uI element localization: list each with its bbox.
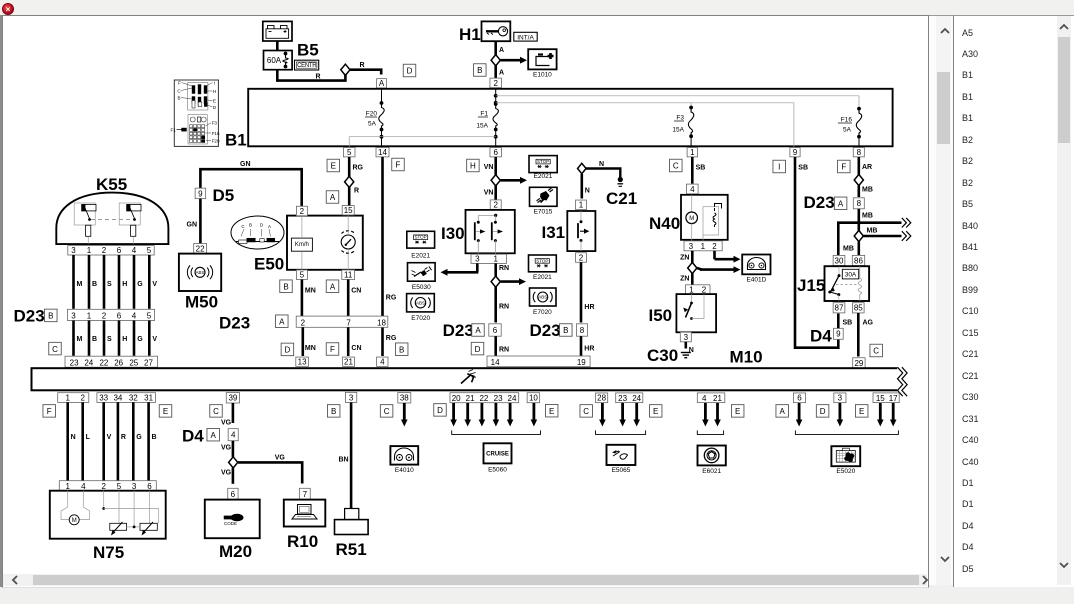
svg-text:60A: 60A — [267, 56, 282, 65]
svg-text:I31: I31 — [542, 223, 566, 242]
svg-text:E50: E50 — [254, 255, 284, 274]
svg-text:D23: D23 — [443, 321, 474, 340]
svg-text:6: 6 — [147, 482, 152, 491]
svg-text:22: 22 — [99, 358, 108, 367]
thin bus line F1 bottom to pin 5 — [349, 137, 496, 148]
instrument cluster E50 — [287, 216, 363, 270]
svg-text:E7020: E7020 — [533, 309, 552, 316]
svg-text:C: C — [673, 162, 679, 171]
svg-text:C: C — [384, 407, 390, 416]
svg-text:21: 21 — [466, 394, 475, 403]
svg-text:H: H — [122, 336, 127, 343]
svg-text:RN: RN — [499, 265, 509, 272]
label E6021 — [702, 468, 721, 475]
svg-text:C21: C21 — [606, 189, 637, 208]
label D4 (M20 column) — [182, 427, 204, 446]
svg-text:ABS: ABS — [538, 295, 547, 300]
resistor R51 — [335, 509, 369, 535]
svg-text:17: 17 — [889, 394, 898, 403]
node E (N75) — [159, 405, 172, 418]
K55 internal switch 1 — [74, 203, 96, 244]
pin 39 on M10 bottom — [226, 393, 239, 403]
svg-text:2: 2 — [579, 253, 584, 262]
pin 22 of M50 — [194, 244, 207, 254]
svg-text:Km/h: Km/h — [295, 242, 309, 248]
wire VG to M20 — [221, 468, 233, 484]
svg-text:A: A — [211, 431, 217, 440]
node D (col 3) — [816, 405, 829, 418]
svg-text:8: 8 — [580, 326, 585, 335]
svg-text:3: 3 — [132, 482, 137, 491]
label R51 — [336, 540, 367, 559]
pin 3 of I50 — [680, 332, 691, 342]
pin 9 of B1 — [790, 148, 800, 158]
svg-text:M50: M50 — [185, 293, 218, 312]
svg-text:F: F — [396, 161, 401, 170]
label I50 — [649, 306, 673, 325]
switch I30 — [466, 210, 515, 254]
svg-text:1: 1 — [87, 246, 92, 255]
svg-text:M: M — [72, 518, 77, 524]
earth point E5065 — [607, 445, 636, 465]
svg-text:86: 86 — [854, 256, 863, 265]
svg-text:V: V — [152, 281, 157, 288]
fuse F3 in B1 — [672, 106, 693, 148]
svg-text:ZN: ZN — [680, 255, 689, 262]
svg-text:E: E — [653, 407, 658, 416]
diamond junction ZN — [688, 262, 697, 273]
node E (col 5 top) — [327, 159, 340, 172]
svg-text:A: A — [330, 282, 336, 291]
label B5 — [297, 41, 319, 60]
arrow to E1010 — [501, 57, 528, 64]
node C (col 39) — [210, 405, 223, 418]
label N40 — [649, 214, 680, 233]
svg-text:ABS: ABS — [195, 270, 204, 275]
label D5 — [213, 186, 235, 205]
svg-text:E5030: E5030 — [412, 284, 431, 291]
svg-text:N: N — [585, 188, 590, 195]
pin 2 of E50 — [296, 206, 307, 216]
svg-text:2: 2 — [80, 394, 85, 403]
label M10 — [730, 348, 763, 367]
svg-text:G: G — [136, 434, 142, 441]
svg-text:D4: D4 — [182, 427, 204, 446]
label C21 — [606, 189, 637, 208]
svg-text:F3: F3 — [212, 121, 218, 126]
diagnostic socket R10 — [284, 500, 326, 527]
earth point E401D — [742, 255, 770, 275]
fuse F16 in B1 — [838, 107, 862, 148]
svg-text:F: F — [178, 81, 181, 86]
wire SB D4 to J15 pin87 — [838, 314, 852, 329]
label D23 (M50 column) — [219, 314, 250, 333]
svg-text:15: 15 — [344, 206, 353, 215]
ignition switch H1 — [482, 21, 511, 41]
h-scrollbar right arrow — [918, 573, 932, 587]
svg-text:S: S — [107, 336, 112, 343]
svg-text:7: 7 — [346, 319, 351, 328]
svg-text:F16: F16 — [212, 131, 220, 136]
switch I50 — [676, 294, 716, 332]
pin 4 of N40 — [687, 184, 699, 194]
label D23 (I30 column) — [443, 321, 474, 340]
label J15 — [797, 276, 825, 295]
continuation break (bottom) — [902, 231, 911, 241]
svg-text:9: 9 — [198, 189, 203, 198]
svg-text:G: G — [137, 336, 143, 343]
pin 11 of E50 — [342, 270, 355, 280]
label I31 — [542, 223, 566, 242]
svg-text:2: 2 — [712, 242, 717, 251]
svg-text:I: I — [778, 163, 780, 172]
wire letters M B S H G V (upper) — [77, 281, 158, 288]
pin 1 of I31 — [576, 200, 587, 210]
svg-text:CRUISE: CRUISE — [486, 452, 509, 458]
svg-text:R: R — [121, 434, 126, 441]
pin row 14 19 on M10 — [487, 356, 590, 367]
svg-text:HR: HR — [584, 304, 594, 311]
svg-text:H: H — [213, 89, 216, 94]
connector view E50 dome — [231, 216, 284, 249]
pin 86 of J15 — [852, 255, 864, 265]
pin row 1 4 2 5 3 6 (N75) — [59, 481, 156, 491]
svg-text:GN: GN — [240, 161, 251, 168]
label D4 (J15 column) — [810, 327, 832, 346]
node D (cruise) — [434, 404, 447, 417]
svg-text:D: D — [285, 346, 291, 355]
svg-text:F: F — [841, 163, 846, 172]
K55 dashed link — [91, 219, 133, 221]
bracket E6021 — [697, 430, 723, 434]
svg-text:HR: HR — [584, 346, 594, 353]
wire RG B1 pin5 to E50 pin15 — [349, 157, 363, 206]
arrow N40 pin2 to E401D — [715, 251, 741, 263]
pin 6 of D23 (I30) — [489, 324, 501, 336]
svg-text:F16: F16 — [841, 117, 853, 124]
label D23 (right) — [804, 193, 835, 212]
svg-text:5A: 5A — [368, 121, 377, 128]
node A of D23 row A — [276, 315, 289, 328]
title bar — [0, 0, 1074, 16]
label E7020 (left) — [411, 315, 430, 322]
svg-text:B: B — [563, 326, 568, 335]
svg-text:F: F — [330, 345, 335, 354]
thin bus line F1 to F3 and pin 9 — [496, 103, 794, 148]
node F (col 8 top) — [838, 160, 851, 173]
connector icon B1 fuse grid — [171, 121, 220, 144]
pin 7 of R10 — [299, 488, 310, 499]
svg-text:AG: AG — [863, 320, 874, 327]
node B (col 4) — [395, 343, 408, 356]
arrow 38 down — [401, 403, 408, 427]
svg-text:4: 4 — [132, 312, 137, 321]
svg-text:K55: K55 — [96, 175, 127, 194]
svg-text:D: D — [820, 407, 826, 416]
svg-text:MN: MN — [305, 345, 316, 352]
svg-text:31: 31 — [144, 394, 153, 403]
svg-text:B: B — [48, 312, 53, 321]
E50 internal wires — [302, 216, 348, 270]
close button — [2, 3, 14, 15]
svg-text:19: 19 — [577, 358, 586, 367]
svg-text:3: 3 — [684, 333, 689, 342]
wire SB B1 pin1 to N40 — [692, 157, 705, 184]
node C (col 38) — [380, 405, 393, 418]
svg-text:N: N — [599, 161, 604, 168]
svg-text:E7020: E7020 — [411, 315, 430, 322]
svg-text:A: A — [268, 224, 271, 229]
svg-text:F1: F1 — [480, 111, 488, 118]
svg-text:6: 6 — [797, 394, 802, 403]
node D (col 13) — [281, 343, 294, 356]
svg-text:ABS: ABS — [416, 300, 425, 305]
svg-text:23: 23 — [70, 358, 79, 367]
label N75 — [93, 543, 124, 562]
pin 6 of M20 — [228, 488, 238, 499]
pin 4 on M10 — [377, 357, 388, 367]
K55 pin row 3 1 2 6 4 5 — [68, 246, 154, 256]
pin 28 on M10 bottom — [596, 393, 608, 403]
svg-text:C: C — [873, 347, 879, 356]
svg-text:6: 6 — [117, 312, 122, 321]
earth point E2021 icon (mid-right) — [529, 255, 557, 272]
svg-text:N40: N40 — [649, 214, 680, 233]
svg-text:5: 5 — [147, 246, 152, 255]
svg-text:1: 1 — [87, 312, 92, 321]
pin A of B1 — [377, 79, 387, 89]
svg-text:2: 2 — [101, 482, 106, 491]
svg-text:A: A — [780, 407, 786, 416]
svg-text:VG: VG — [221, 445, 232, 452]
svg-text:39: 39 — [228, 394, 237, 403]
pin 38 on M10 bottom — [398, 393, 411, 403]
svg-text:15: 15 — [876, 394, 885, 403]
svg-text:4: 4 — [231, 431, 236, 440]
label E2021 (top) — [534, 173, 553, 180]
svg-text:23: 23 — [494, 394, 503, 403]
node A (col 6) — [776, 405, 789, 418]
diamond junction MB 2 — [854, 230, 863, 241]
pin row 33 34 32 31 (N75) — [97, 393, 156, 403]
earth point E2021 icon (mid-left) — [407, 231, 435, 248]
node D (destination label) — [403, 64, 416, 77]
svg-text:E: E — [735, 407, 740, 416]
node H (col 6) — [467, 159, 480, 172]
label M20 — [219, 542, 252, 561]
wire RG B1 pin14 down to pin 4 — [383, 157, 397, 356]
node B of D23 — [45, 309, 58, 322]
label CENTR — [295, 60, 319, 70]
svg-text:INT/A: INT/A — [517, 34, 534, 41]
svg-text:RG: RG — [386, 335, 397, 342]
svg-text:M: M — [77, 336, 83, 343]
svg-text:6: 6 — [493, 148, 498, 157]
svg-text:24: 24 — [508, 394, 517, 403]
svg-text:VG: VG — [221, 470, 232, 477]
svg-text:E: E — [331, 162, 336, 171]
svg-text:D: D — [407, 67, 413, 76]
wire CN E50 to D23 — [348, 280, 361, 317]
svg-text:1: 1 — [701, 242, 706, 251]
svg-text:J15: J15 — [797, 276, 825, 295]
pin row 20 21 22 23 24 — [450, 393, 519, 403]
label E50 — [254, 255, 284, 274]
node A of D23 (right) — [834, 197, 847, 210]
earth point E1010 — [528, 49, 556, 69]
diamond junction B5 wire — [341, 64, 350, 75]
label E5065 — [612, 467, 631, 474]
diamond junction VN — [491, 175, 500, 186]
svg-text:3: 3 — [71, 246, 76, 255]
label E2021 (mid-left) — [411, 253, 430, 260]
svg-text:F: F — [47, 407, 52, 416]
svg-text:R10: R10 — [287, 532, 318, 551]
svg-text:4: 4 — [132, 246, 137, 255]
relay J15 — [825, 266, 870, 301]
svg-text:H: H — [470, 162, 476, 171]
label K55 — [96, 175, 127, 194]
pin 15 of E50 — [342, 205, 354, 215]
bracket E5020 — [795, 430, 898, 434]
svg-text:B: B — [152, 434, 157, 441]
thin bus line F1 to F16 — [496, 96, 859, 109]
svg-text:5: 5 — [300, 271, 305, 280]
pin row 1 2 of I50 — [686, 285, 711, 295]
wire MB to J15 pin86 — [857, 242, 860, 257]
node C (col 1) — [670, 159, 683, 172]
pin row 3 1 of I30 — [471, 254, 507, 263]
svg-text:B1: B1 — [225, 131, 247, 150]
label C30 — [647, 346, 678, 365]
svg-text:VG: VG — [221, 420, 232, 427]
battery B5 — [263, 21, 292, 41]
label E7020 (right) — [533, 309, 552, 316]
wire RN to pin 14 — [496, 336, 509, 356]
node B (col 3) — [327, 405, 340, 418]
svg-text:2: 2 — [300, 207, 305, 216]
svg-text:M: M — [689, 216, 694, 222]
svg-text:B: B — [477, 66, 482, 75]
pin 8 of D23 (I31) — [577, 324, 588, 336]
svg-text:M: M — [77, 281, 83, 288]
svg-text:87: 87 — [835, 304, 844, 313]
earth point E7020 icon (right) — [530, 288, 557, 306]
svg-text:RN: RN — [499, 347, 509, 354]
svg-text:M20: M20 — [219, 542, 252, 561]
svg-text:H1: H1 — [459, 25, 481, 44]
switch I31 — [567, 211, 595, 251]
svg-text:E: E — [213, 99, 216, 104]
svg-text:SB: SB — [843, 320, 853, 327]
diamond junction VG — [229, 457, 238, 468]
wire GN down to M50 — [187, 199, 201, 245]
label E1010 — [533, 72, 552, 79]
switch M50 (brake pedal) — [179, 254, 221, 291]
E50 speedo gauge — [341, 231, 355, 254]
pin 87 of J15 — [833, 303, 845, 313]
node A (E50 bottom) — [326, 280, 339, 293]
pin 9 of D5 — [195, 188, 206, 199]
svg-text:CENTR: CENTR — [297, 63, 317, 69]
svg-text:VN: VN — [484, 190, 494, 197]
svg-text:D23: D23 — [530, 321, 561, 340]
svg-text:G: G — [137, 281, 143, 288]
earth point E6021 — [698, 446, 726, 466]
wires D23-B to bottom row — [74, 321, 150, 356]
svg-text:21: 21 — [713, 394, 722, 403]
label E2021 (mid-right) — [533, 274, 552, 281]
wire BN to R51 — [339, 402, 352, 508]
wire VG to diamond — [221, 441, 233, 457]
svg-text:STOP: STOP — [536, 258, 548, 263]
pin row 23 24 22 26 25 27 on M10 — [65, 356, 158, 367]
pin 30 of J15 — [833, 255, 845, 265]
connector D23 row A pins 2 7 18 — [296, 316, 388, 327]
pin 6 of B1 — [490, 148, 502, 158]
svg-text:AR: AR — [862, 164, 872, 171]
earth point E5020 — [831, 446, 860, 466]
node B of D23 (I31) — [560, 324, 573, 337]
pin row 4 21 (E6021) — [697, 393, 725, 403]
svg-text:BN: BN — [339, 457, 349, 464]
wire battery to fuse B5 — [276, 41, 279, 51]
label E4010 — [395, 467, 414, 474]
svg-text:A: A — [279, 317, 285, 326]
label R10 — [287, 532, 318, 551]
svg-text:L: L — [86, 434, 91, 441]
svg-text:1: 1 — [690, 148, 695, 157]
E50 Km/h box — [291, 238, 312, 251]
svg-text:GN: GN — [187, 222, 198, 229]
svg-text:14: 14 — [378, 148, 387, 157]
svg-text:3: 3 — [349, 393, 354, 402]
wire AR B1 pin8 down — [859, 157, 872, 175]
svg-text:E2021: E2021 — [411, 253, 430, 260]
svg-text:23: 23 — [618, 394, 627, 403]
wire HR I31 down — [581, 262, 595, 322]
svg-text:E: E — [859, 407, 864, 416]
spark icon in M10 — [461, 370, 476, 384]
wires K55 to D23 row B — [74, 255, 150, 309]
svg-text:RN: RN — [499, 304, 509, 311]
node E (cruise) — [545, 404, 558, 417]
svg-text:D: D — [437, 406, 443, 415]
svg-text:ZN: ZN — [680, 276, 689, 283]
arrow I30 pin3 to E5030 — [441, 263, 479, 275]
vertical scrollbar (canvas) — [936, 16, 951, 585]
svg-text:VG: VG — [275, 455, 286, 462]
svg-text:5: 5 — [147, 312, 152, 321]
pin 1 of B1 — [687, 148, 697, 158]
svg-text:E: E — [163, 407, 168, 416]
svg-text:2: 2 — [102, 246, 107, 255]
node F (col 14 top) — [392, 158, 405, 171]
svg-text:21: 21 — [344, 358, 353, 367]
node E (15 17) — [855, 405, 868, 418]
pin row 1 2 (N75) — [58, 393, 89, 403]
pin 5 of B1 — [343, 148, 355, 158]
svg-text:30A: 30A — [845, 272, 857, 279]
motor N40 (with resistor) — [681, 195, 728, 241]
svg-text:H: H — [122, 281, 127, 288]
label D23 (I31 column) — [530, 321, 561, 340]
control unit M20 (immobilizer) — [205, 500, 260, 539]
node A of D4 — [207, 428, 220, 441]
pin row 15 17 — [873, 393, 899, 403]
svg-text:5: 5 — [117, 482, 122, 491]
bracket cruise — [452, 430, 541, 434]
